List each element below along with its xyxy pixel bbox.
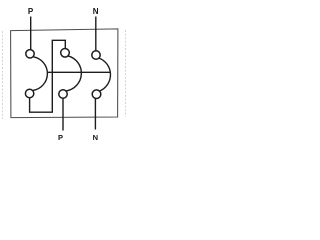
- wire N bottom (from bottom-right terminal): [94, 98, 96, 129]
- terminal box outline: [11, 29, 118, 118]
- svg-text:P: P: [28, 7, 34, 16]
- svg-text:N: N: [93, 7, 99, 16]
- terminal circle bottom-middle: [59, 90, 67, 98]
- fuse arc left (top-left to bottom-left): [33, 57, 48, 91]
- svg-text:P: P: [58, 133, 63, 142]
- wire N top: [95, 17, 97, 52]
- terminal circle bottom-left: [25, 89, 33, 97]
- faint scan artifact line left: [2, 31, 4, 119]
- svg-text:N: N: [93, 133, 98, 142]
- wire P bottom (from bottom-middle terminal): [62, 98, 64, 130]
- terminal circle top-right: [92, 51, 100, 59]
- faint scan artifact line right: [124, 30, 126, 117]
- fuse arc right (top-right to bottom-right): [99, 58, 110, 91]
- wire P top: [30, 17, 32, 50]
- horizontal tie wire: [47, 71, 110, 73]
- fuse arc middle (top-middle to bottom-middle): [66, 56, 81, 91]
- terminal circle bottom-right: [92, 90, 101, 99]
- link wire bottom-left terminal to top-middle terminal (staple): [30, 40, 66, 112]
- terminal circle top-middle: [61, 49, 70, 58]
- terminal circle top-left: [26, 50, 34, 58]
